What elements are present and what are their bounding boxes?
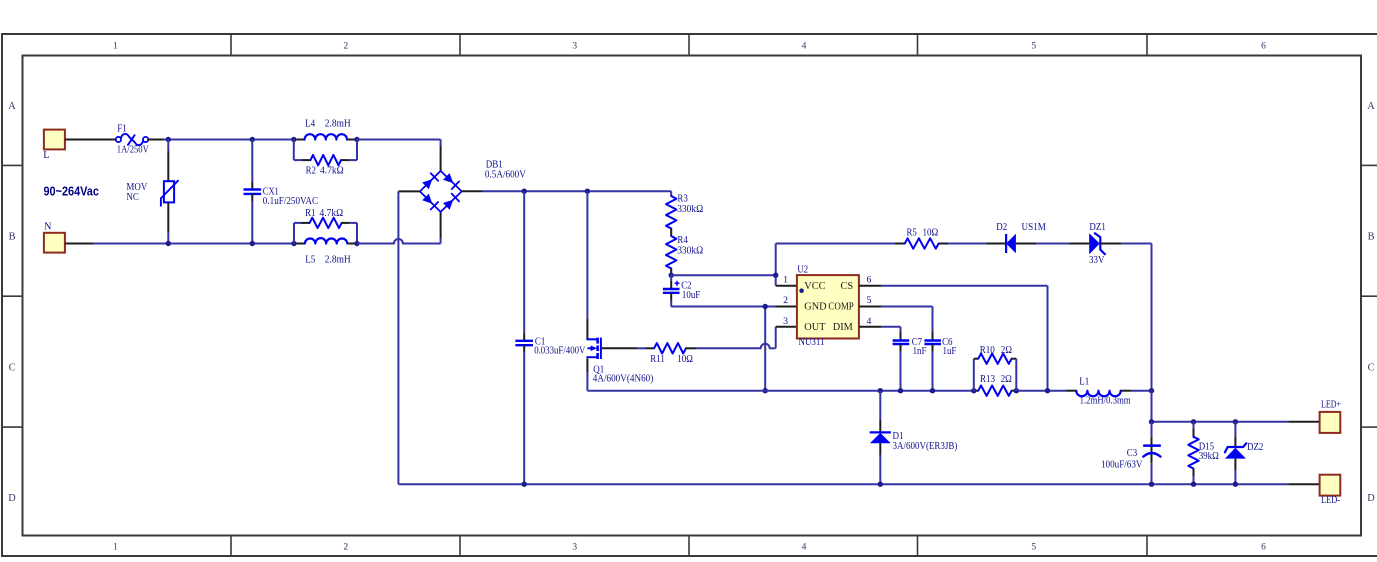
svg-text:10Ω: 10Ω xyxy=(677,354,693,365)
node DZ2 top xyxy=(1233,419,1238,424)
svg-text:DZ2: DZ2 xyxy=(1247,442,1263,453)
node C1 bottom xyxy=(522,482,527,487)
resistor R13 xyxy=(974,374,1017,396)
wire CS net xyxy=(859,286,1048,391)
node Q1 drain xyxy=(585,189,590,194)
svg-text:2.8mH: 2.8mH xyxy=(325,118,351,129)
svg-text:R5: R5 xyxy=(907,228,917,239)
svg-text:DIM: DIM xyxy=(833,322,853,333)
svg-text:D: D xyxy=(1367,493,1375,504)
node C6 bottom xyxy=(930,388,935,393)
svg-text:D2: D2 xyxy=(996,222,1007,233)
wire N line xyxy=(65,243,294,245)
wire source sense rail xyxy=(587,390,1066,392)
svg-text:0.5A/600V: 0.5A/600V xyxy=(485,169,526,180)
svg-text:6: 6 xyxy=(1261,542,1266,552)
svg-text:4.7kΩ: 4.7kΩ xyxy=(320,165,344,176)
svg-text:90~264Vac: 90~264Vac xyxy=(44,184,99,199)
op-amp U2 NU311 xyxy=(783,265,871,348)
svg-text:4A/600V(4N60): 4A/600V(4N60) xyxy=(593,374,654,385)
svg-text:R10: R10 xyxy=(980,345,995,356)
svg-text:330kΩ: 330kΩ xyxy=(677,204,703,215)
svg-text:R4: R4 xyxy=(677,235,687,246)
svg-text:VCC: VCC xyxy=(804,281,825,292)
svg-text:2Ω: 2Ω xyxy=(1001,374,1012,385)
svg-text:R1: R1 xyxy=(305,208,315,219)
svg-text:OUT: OUT xyxy=(804,322,826,333)
node R4/C2 xyxy=(669,273,674,278)
svg-text:L5: L5 xyxy=(305,255,315,266)
svg-text:5: 5 xyxy=(1031,42,1036,52)
inductor L4 xyxy=(296,118,355,139)
wire LED+ rail xyxy=(1152,391,1320,422)
connector L xyxy=(43,130,65,161)
svg-text:33V: 33V xyxy=(1089,255,1105,266)
svg-text:CS: CS xyxy=(840,281,853,292)
inductor L1 xyxy=(1066,377,1152,407)
svg-text:3: 3 xyxy=(572,542,577,552)
svg-text:3: 3 xyxy=(572,42,577,52)
resistor R11 xyxy=(602,343,696,365)
node L1/DZ1 column xyxy=(1149,388,1154,393)
svg-text:A: A xyxy=(8,101,16,112)
fuse F1 xyxy=(116,123,149,155)
svg-text:GND: GND xyxy=(804,302,827,313)
svg-text:B: B xyxy=(9,231,16,242)
wire VCC net xyxy=(671,244,895,286)
svg-text:0.033uF/400V: 0.033uF/400V xyxy=(534,346,586,357)
capacitor C7 (DIM) xyxy=(859,327,927,391)
node D15 bottom xyxy=(1191,482,1196,487)
svg-text:1A/250V: 1A/250V xyxy=(117,145,149,156)
svg-text:2: 2 xyxy=(343,42,348,52)
capacitor CX1 xyxy=(244,140,319,244)
wire fuse to node xyxy=(148,139,294,141)
svg-text:2: 2 xyxy=(783,295,788,306)
svg-text:10Ω: 10Ω xyxy=(923,228,939,239)
bridge rectifier DB1 xyxy=(420,159,526,212)
wire R5 to D2 xyxy=(948,243,986,245)
svg-text:R3: R3 xyxy=(677,194,687,205)
svg-text:R11: R11 xyxy=(650,354,665,365)
svg-text:DZ1: DZ1 xyxy=(1089,222,1105,233)
node CS bottom xyxy=(1045,388,1050,393)
connector LED- xyxy=(1320,475,1341,506)
node C7 bottom xyxy=(898,388,903,393)
node C3 bottom xyxy=(1149,482,1154,487)
node MOV bottom xyxy=(166,241,171,246)
svg-text:3A/600V(ER3JB): 3A/600V(ER3JB) xyxy=(893,441,958,452)
svg-text:C3: C3 xyxy=(1127,448,1137,459)
node D15 top xyxy=(1191,419,1196,424)
svg-text:L1: L1 xyxy=(1079,377,1089,388)
wire DC+ rail xyxy=(462,191,672,196)
resistor R5 xyxy=(895,228,948,249)
zener DZ2 xyxy=(1225,422,1264,484)
svg-text:LED-: LED- xyxy=(1321,495,1340,506)
svg-text:D: D xyxy=(8,493,16,504)
connector LED+ xyxy=(1320,400,1342,433)
svg-text:6: 6 xyxy=(867,274,872,285)
svg-text:L4: L4 xyxy=(305,118,315,129)
svg-text:4: 4 xyxy=(802,42,807,52)
node fuse/MOV junction xyxy=(166,137,171,142)
wire R3-R4 xyxy=(670,229,672,237)
node DZ2 bottom xyxy=(1233,482,1238,487)
node C1 top xyxy=(522,189,527,194)
svg-text:4.7kΩ: 4.7kΩ xyxy=(320,208,344,219)
svg-text:330kΩ: 330kΩ xyxy=(677,246,703,257)
connector N xyxy=(44,222,65,253)
node GND/pin2 xyxy=(763,304,768,309)
capacitor C6 (COMP) xyxy=(859,307,957,391)
resistor R2 xyxy=(294,140,357,177)
svg-text:100uF/63V: 100uF/63V xyxy=(1101,460,1143,471)
svg-text:1: 1 xyxy=(783,274,788,285)
svg-text:0.1uF/250VAC: 0.1uF/250VAC xyxy=(263,196,318,207)
wire L to fuse (pin) xyxy=(65,139,116,141)
node R13 left xyxy=(971,388,976,393)
svg-text:F1: F1 xyxy=(117,123,127,134)
svg-text:2: 2 xyxy=(343,542,348,552)
svg-text:R2: R2 xyxy=(306,165,316,176)
svg-text:LED+: LED+ xyxy=(1321,400,1341,411)
svg-text:5: 5 xyxy=(1031,542,1036,552)
node CX1 top xyxy=(250,137,255,142)
svg-text:R13: R13 xyxy=(980,374,995,385)
svg-text:C: C xyxy=(9,362,16,373)
svg-text:3: 3 xyxy=(783,316,788,327)
node L5 right xyxy=(354,241,359,246)
svg-text:C: C xyxy=(1368,362,1375,373)
resistor R1 xyxy=(294,208,357,244)
svg-text:5: 5 xyxy=(867,295,872,306)
diode D2 US1M xyxy=(986,222,1046,253)
svg-text:NC: NC xyxy=(126,192,139,203)
wire L4 to bridge xyxy=(357,140,441,171)
diode D1 ER3JB xyxy=(870,391,958,485)
svg-text:L: L xyxy=(43,150,49,161)
node GND/sense rail xyxy=(763,388,768,393)
svg-text:1uF: 1uF xyxy=(943,346,957,357)
inductor L5 xyxy=(297,238,356,265)
zener DZ1 33V xyxy=(1069,222,1121,266)
resistor R10 xyxy=(974,345,1017,391)
svg-text:B: B xyxy=(1368,231,1375,242)
capacitor C1 xyxy=(515,191,585,484)
svg-text:NU311: NU311 xyxy=(799,337,825,348)
resistor D15 39k xyxy=(1188,422,1219,484)
svg-text:1.2mH/0.3mm: 1.2mH/0.3mm xyxy=(1080,395,1131,406)
svg-text:A: A xyxy=(1367,101,1375,112)
wire DC- rail xyxy=(398,191,1319,484)
node L4 left xyxy=(291,137,296,142)
resistor R3 xyxy=(666,194,704,229)
wire R4 to node xyxy=(670,269,672,276)
resistor R4 xyxy=(666,235,704,269)
svg-text:4: 4 xyxy=(802,542,807,552)
svg-text:4: 4 xyxy=(867,316,872,327)
node D1 top xyxy=(878,388,883,393)
svg-text:39kΩ: 39kΩ xyxy=(1199,451,1219,462)
svg-text:N: N xyxy=(44,222,52,233)
svg-text:1: 1 xyxy=(113,42,118,52)
svg-text:US1M: US1M xyxy=(1022,222,1046,233)
svg-text:COMP: COMP xyxy=(828,302,854,313)
wire DZ1 to LED+ column xyxy=(1121,244,1152,391)
svg-text:2.8mH: 2.8mH xyxy=(325,255,351,266)
capacitor C3 xyxy=(1101,422,1161,484)
node D1 bottom xyxy=(878,482,883,487)
capacitor C2 xyxy=(663,275,701,306)
node R13 right xyxy=(1014,388,1019,393)
node L5 left xyxy=(291,241,296,246)
svg-text:10uF: 10uF xyxy=(682,290,701,301)
svg-text:2Ω: 2Ω xyxy=(1001,345,1012,356)
svg-text:U2: U2 xyxy=(797,265,808,276)
svg-text:1nF: 1nF xyxy=(913,346,927,357)
transistor Q1 (MOSFET 4N60) xyxy=(586,191,653,391)
node L4 right xyxy=(354,137,359,142)
svg-text:1: 1 xyxy=(113,542,118,552)
wire L5 to bridge (hops DC- wire) xyxy=(357,212,441,244)
node VCC/pin1 xyxy=(773,273,778,278)
svg-text:6: 6 xyxy=(1261,42,1266,52)
node C3 top xyxy=(1149,419,1154,424)
wire R11 to OUT pin (hops GND wire) xyxy=(696,327,797,349)
varistor MOV NC xyxy=(126,140,178,244)
wire GND net xyxy=(671,307,797,391)
node CX1 bottom xyxy=(250,241,255,246)
wire D2 to DZ1 xyxy=(1036,243,1069,245)
